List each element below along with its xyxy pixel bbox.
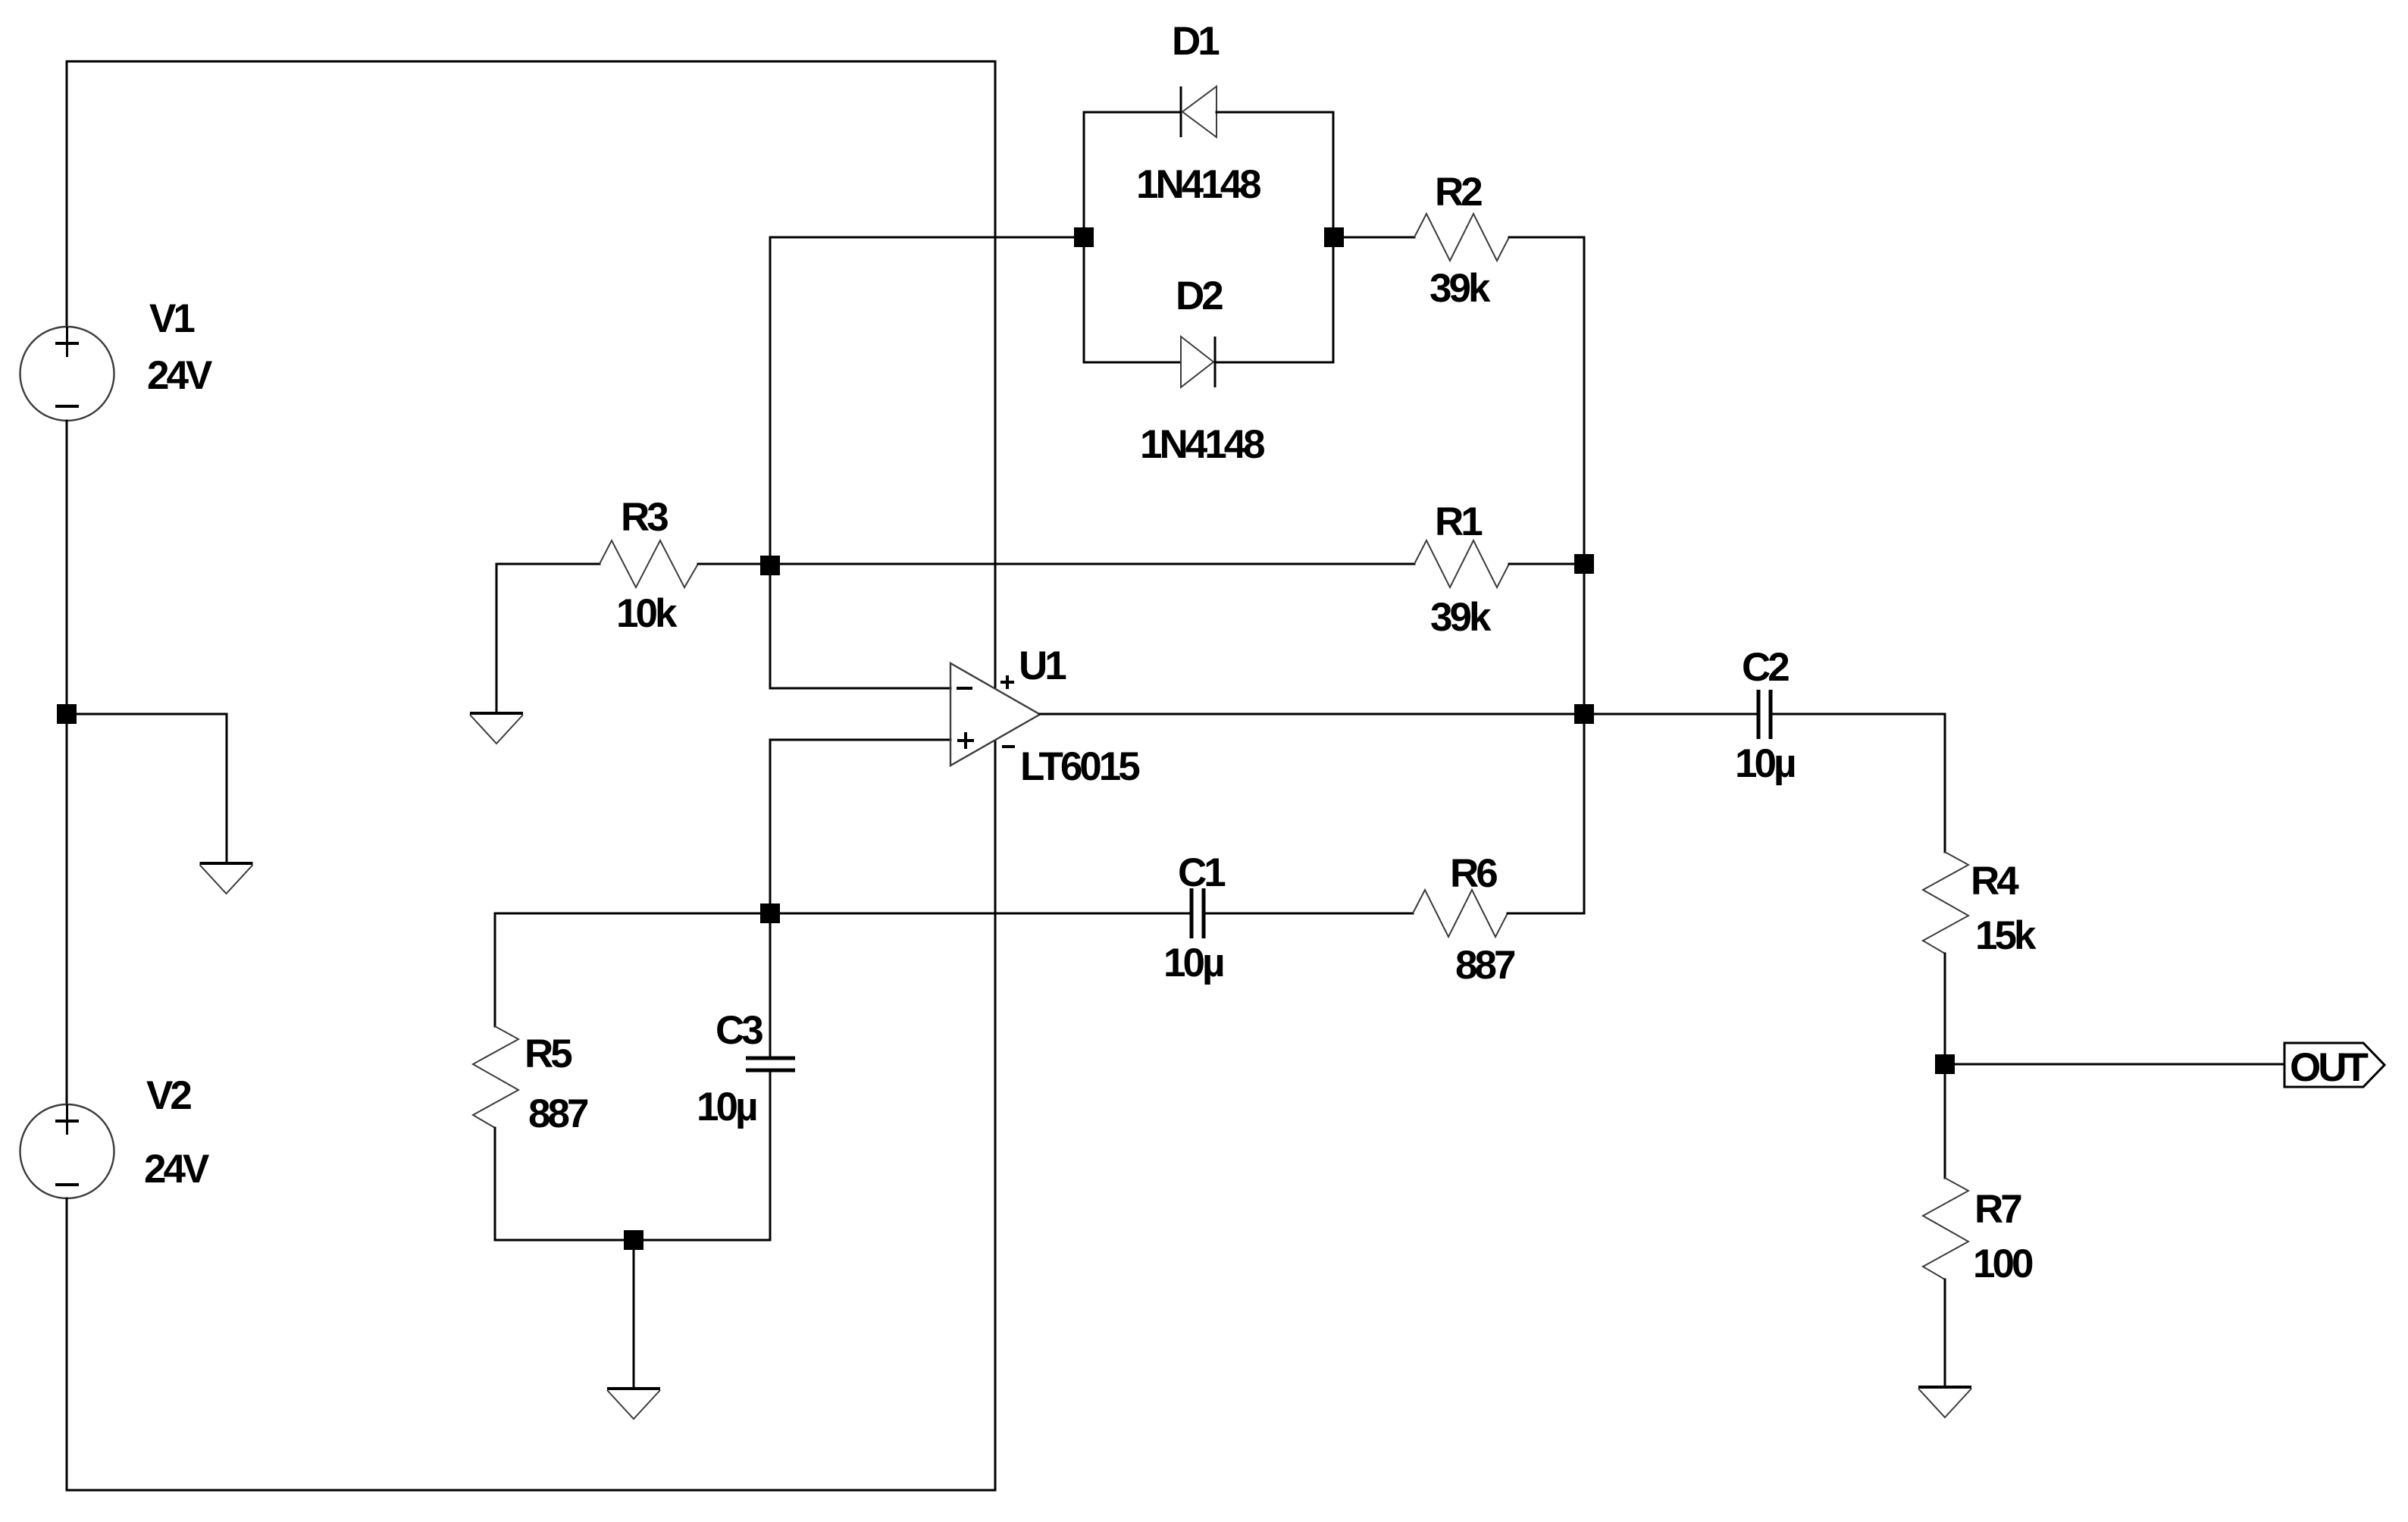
node junction diode block left (1074, 227, 1094, 247)
wire left rail middle (V1 to V2) (66, 421, 68, 1104)
wire D2 anode lead (1084, 362, 1180, 364)
wire diode block right side (1332, 112, 1335, 362)
svg-text:10µ: 10µ (1735, 741, 1795, 786)
node junction output/feedback (1574, 704, 1594, 724)
wire OUT to R7 (1944, 1064, 1946, 1178)
svg-text:V2: V2 (146, 1073, 191, 1118)
ground (R3) (470, 713, 523, 744)
resistor R3 (600, 540, 698, 587)
diode D2 (1181, 337, 1215, 387)
svg-text:10k: 10k (616, 591, 678, 636)
wire C3 drop (769, 913, 772, 1057)
svg-text:R5: R5 (524, 1032, 571, 1076)
svg-text:OUT: OUT (2290, 1045, 2369, 1090)
wire R6 right lead (1508, 913, 1584, 915)
node junction R1/feedback (1574, 554, 1594, 574)
svg-text:R2: R2 (1435, 170, 1482, 215)
svg-text:100: 100 (1973, 1242, 2033, 1286)
ground (RC network) (607, 1389, 660, 1419)
node junction on left rail (57, 704, 77, 724)
svg-text:15k: 15k (1975, 913, 2037, 958)
capacitor C3 (746, 1058, 795, 1070)
svg-text:R4: R4 (1971, 859, 2019, 903)
capacitor C1 (1191, 888, 1204, 938)
svg-text:24V: 24V (144, 1147, 209, 1192)
node junction inverting net (760, 556, 780, 575)
svg-text:C2: C2 (1742, 645, 1789, 690)
wire R5 column top (494, 913, 496, 1026)
resistor R7 (1923, 1178, 1968, 1279)
resistor R2 (1414, 214, 1509, 261)
wire gnd branch from left rail (67, 714, 227, 863)
resistor R6 (1413, 890, 1508, 937)
wire R3 to R1 (inverting net) (698, 563, 1414, 565)
svg-text:R3: R3 (621, 495, 668, 540)
ground (left rail branch) (200, 863, 253, 894)
wire plus net to C1 (770, 913, 1191, 915)
wire C1 to R6 (1204, 913, 1413, 915)
svg-text:887: 887 (528, 1091, 588, 1136)
diode D1 (1181, 86, 1217, 137)
svg-text:C1: C1 (1178, 850, 1225, 895)
svg-text:LT6015: LT6015 (1020, 744, 1139, 789)
wire R2 right to feedback column (1509, 237, 1584, 913)
wire top rail (67, 61, 995, 63)
svg-text:39k: 39k (1430, 595, 1492, 640)
svg-text:R1: R1 (1435, 500, 1482, 544)
wire opamp plus input (770, 740, 950, 913)
svg-text:D1: D1 (1172, 19, 1219, 64)
node junction RC bottom (624, 1230, 643, 1250)
op-amp U1 (950, 663, 1040, 766)
wire C3 to bottom of RC (769, 1070, 772, 1240)
wire R2 left lead (1333, 236, 1414, 239)
voltage source V2 (20, 1104, 114, 1198)
wire C2 to R4 (1771, 714, 1945, 852)
svg-text:D2: D2 (1176, 274, 1223, 318)
wire left rail upper (to V1) (66, 61, 68, 327)
wire R3 ground drop (496, 564, 498, 713)
node junction diode block right (1324, 227, 1344, 247)
wire R1 right lead (1509, 563, 1584, 565)
wire inverting net riser (770, 237, 1084, 565)
wire left rail lower (V2 to bottom) (66, 1198, 68, 1490)
port OUT (2284, 1043, 2385, 1087)
svg-text:1N4148: 1N4148 (1140, 422, 1264, 467)
voltage source V1 (20, 327, 114, 421)
svg-text:C3: C3 (716, 1008, 762, 1053)
capacitor C2 (1758, 690, 1771, 739)
wire bottom rail (67, 1489, 995, 1492)
wire OUT lead (1945, 1063, 2284, 1066)
svg-text:U1: U1 (1019, 644, 1066, 688)
node junction plus net (760, 903, 780, 923)
wire R3 left lead (496, 563, 600, 565)
svg-text:887: 887 (1455, 943, 1515, 988)
wire R4 to OUT node (1944, 954, 1946, 1064)
wire diode block left side (1083, 112, 1085, 362)
svg-text:10µ: 10µ (1163, 941, 1223, 985)
wire D1 cathode lead (1217, 111, 1333, 114)
resistor R4 (1923, 852, 1968, 954)
wire D2 cathode lead (1215, 362, 1333, 364)
resistor R1 (1414, 540, 1509, 587)
wire R5 bottom (495, 1128, 770, 1240)
wire plus-input net left (to R5 column) (495, 913, 770, 915)
wire R7 to ground (1944, 1279, 1946, 1387)
wire opamp output (1040, 713, 1758, 716)
wire right rail lower (opamp V- to bottom) (994, 741, 997, 1490)
wire RC bottom to ground (633, 1240, 635, 1389)
svg-text:R7: R7 (1974, 1187, 2021, 1232)
svg-text:V1: V1 (149, 296, 194, 341)
svg-text:1N4148: 1N4148 (1136, 162, 1260, 207)
node junction OUT (1935, 1054, 1955, 1074)
svg-text:24V: 24V (147, 353, 212, 398)
svg-text:10µ: 10µ (697, 1085, 756, 1129)
wire D1 anode lead (1084, 111, 1180, 114)
svg-text:39k: 39k (1429, 266, 1491, 311)
resistor R5 (473, 1026, 518, 1128)
ground (R7) (1918, 1387, 1971, 1417)
wire opamp minus input (770, 565, 950, 688)
wire right rail upper (top to opamp V+) (994, 61, 997, 688)
svg-text:R6: R6 (1450, 851, 1497, 896)
